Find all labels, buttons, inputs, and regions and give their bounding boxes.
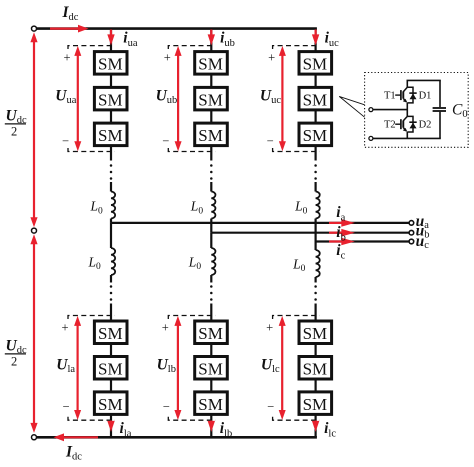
arrow: arm voltage U_lc (double headed) — [281, 320, 283, 417]
svg-text:2: 2 — [11, 124, 17, 138]
wire: lower arm c stem into SM stack — [315, 304, 317, 322]
node: AC terminal u_a — [409, 221, 414, 226]
wire: lower arm b to bottom bus — [210, 415, 212, 438]
wire: SM interconnect lower arm c 2-3 — [315, 379, 317, 392]
dashed boundary: lower arm c module group (bottom) — [273, 417, 320, 421]
submodule SM (upper arm a, #1) — [94, 52, 127, 75]
ellipsis: more SMs in lower arm b — [210, 285, 213, 288]
ellipsis: more SMs in upper arm a — [110, 164, 113, 167]
svg-text:+: + — [268, 51, 275, 65]
dashed boundary: lower arm a module group (bottom) — [68, 417, 115, 421]
node: DC midpoint — [32, 228, 37, 233]
arrow: arm voltage U_la (double headed) — [76, 320, 78, 417]
svg-text:SM: SM — [98, 359, 123, 378]
svg-text:SM: SM — [198, 324, 223, 343]
svg-text:SM: SM — [303, 55, 328, 74]
node: SM terminal upper — [369, 108, 373, 112]
wire: bridge midpoint segment — [406, 103, 408, 117]
svg-text:SM: SM — [198, 359, 223, 378]
wire: lower arm b stem into SM stack — [210, 304, 212, 322]
ellipsis: more SMs in upper arm b — [210, 164, 213, 167]
submodule SM (upper arm b, #2) — [195, 87, 228, 110]
arrow: output current i_b — [329, 232, 343, 234]
dashed boundary: upper arm c module group (top) — [273, 46, 320, 49]
dashed boundary: upper arm c module group (bottom) — [273, 148, 320, 152]
svg-text:−: − — [267, 400, 274, 414]
diode D1 (anti-parallel) — [407, 87, 416, 103]
submodule SM (lower arm a, #1) — [94, 321, 127, 344]
transistor T1 (IGBT) — [395, 87, 407, 103]
wire: SM interconnect lower arm a 2-3 — [110, 379, 112, 392]
wire: lower inductor b to lower arm — [210, 275, 212, 283]
wire: top DC bus (positive rail) — [34, 27, 317, 30]
wire: phase a upper arm stem from top bus — [110, 29, 112, 52]
svg-text:T2: T2 — [384, 120, 396, 131]
arrow: output current i_c — [329, 240, 343, 242]
submodule SM (lower arm c, #2) — [299, 357, 332, 380]
submodule SM (lower arm c, #1) — [299, 321, 332, 344]
wire: SM interconnect upper arm c 2-3 — [315, 110, 317, 122]
submodule SM (upper arm a, #3) — [94, 123, 127, 146]
node: SM terminal lower — [369, 136, 373, 140]
inductor L0 upper arm b — [211, 192, 215, 219]
wire: upper inductor b to AC node — [210, 219, 212, 233]
wire: SM interconnect lower arm c 1-2 — [315, 344, 317, 357]
svg-text:+: + — [64, 51, 71, 65]
dashed boundary: upper arm b module group (top) — [168, 46, 215, 49]
wire: upper inductor a to AC node — [110, 219, 112, 223]
inductor L0 lower arm c — [316, 250, 320, 277]
ellipsis: more SMs in upper arm c — [314, 164, 317, 167]
submodule SM (lower arm b, #1) — [195, 321, 228, 344]
inductor L0 lower arm a — [111, 248, 115, 275]
svg-text:SM: SM — [98, 324, 123, 343]
wire: phase c upper arm stem from top bus — [315, 29, 317, 52]
wire: lower arm a stem into SM stack — [110, 304, 112, 322]
inductor L0 upper arm c — [316, 192, 320, 219]
wire: SM interconnect lower arm b 1-2 — [210, 344, 212, 357]
arrow: Udc/2 measurement, upper half (double headed) — [33, 36, 35, 224]
arrow: arm current i_lb (bottom of leg) — [210, 421, 212, 424]
arrow: arm current i_ua (top of leg) — [110, 30, 112, 37]
wire: lower arm a to bottom bus — [110, 415, 112, 438]
svg-text:+: + — [62, 321, 69, 335]
wire: SM interconnect lower arm b 2-3 — [210, 379, 212, 392]
submodule SM (upper arm a, #2) — [94, 87, 127, 110]
wire: upper arm c below SM stack — [315, 146, 317, 161]
arrow: arm current i_ub (top of leg) — [210, 30, 212, 37]
svg-text:T1: T1 — [384, 91, 396, 102]
wire: AC output phase c — [316, 240, 410, 242]
dashed boundary: upper arm a module group (bottom) — [68, 148, 115, 152]
inductor L0 upper arm a — [111, 192, 115, 219]
arrow: output current i_a — [329, 222, 343, 224]
wire: AC output phase b — [211, 232, 409, 234]
svg-text:SM: SM — [198, 90, 223, 109]
submodule SM (upper arm c, #3) — [299, 123, 332, 146]
arrow: arm current i_la (bottom of leg) — [110, 421, 112, 424]
arrow: Idc current on top bus — [50, 28, 80, 30]
ellipsis: more SMs in lower arm c — [314, 285, 317, 288]
submodule SM (upper arm b, #3) — [195, 123, 228, 146]
submodule SM (lower arm b, #3) — [195, 392, 228, 415]
wire: phase b upper arm stem from top bus — [210, 29, 212, 52]
node: AC terminal u_b — [409, 230, 414, 235]
submodule SM (lower arm a, #2) — [94, 357, 127, 380]
dashed boundary: lower arm b module group (bottom) — [168, 417, 215, 421]
svg-text:SM: SM — [303, 126, 328, 145]
svg-text:2: 2 — [11, 354, 17, 368]
wire: SM interconnect lower arm a 1-2 — [110, 344, 112, 357]
submodule SM (lower arm a, #3) — [94, 392, 127, 415]
node: AC terminal u_c — [409, 239, 414, 244]
arrow: arm voltage U_ub (double headed) — [177, 50, 179, 148]
wire: bridge bottom segment — [406, 132, 408, 138]
callout wedge from SM box to inset — [339, 96, 364, 117]
svg-text:D2: D2 — [419, 120, 432, 131]
wire: upper inductor c to AC node — [315, 219, 317, 242]
wire: SM interconnect upper arm a 1-2 — [110, 75, 112, 88]
svg-text:SM: SM — [98, 126, 123, 145]
dashed boundary: upper arm a module group (top) — [68, 46, 115, 49]
svg-text:−: − — [63, 400, 70, 414]
svg-text:SM: SM — [98, 90, 123, 109]
submodule SM (upper arm c, #2) — [299, 87, 332, 110]
svg-text:SM: SM — [98, 395, 123, 414]
wire: AC node a to lower inductor — [110, 223, 112, 248]
submodule SM (lower arm b, #2) — [195, 357, 228, 380]
svg-text:SM: SM — [198, 126, 223, 145]
svg-text:SM: SM — [198, 395, 223, 414]
dashed boundary: lower arm b module group (top) — [168, 316, 215, 320]
wire: AC output phase a — [111, 222, 409, 224]
svg-text:−: − — [163, 400, 170, 414]
wire: SM upper terminal to bridge midpoint — [373, 109, 407, 111]
svg-text:SM: SM — [198, 55, 223, 74]
arrow: arm voltage U_uc (double headed) — [281, 50, 283, 148]
wire: SM lower terminal rail — [373, 137, 441, 139]
wire: SM interconnect upper arm b 1-2 — [210, 75, 212, 88]
wire: upper arm a to arm inductor — [110, 182, 112, 192]
transistor T2 (IGBT) — [395, 116, 407, 131]
wire: SM top rail — [407, 79, 441, 81]
wire: upper arm b to arm inductor — [210, 182, 212, 192]
arrow: arm voltage U_lb (double headed) — [177, 320, 179, 417]
arrow: arm current i_lc (bottom of leg) — [315, 421, 317, 424]
arrow: arm voltage U_ua (double headed) — [77, 50, 79, 148]
wire: SM interconnect upper arm b 2-3 — [210, 110, 212, 122]
dashed boundary: lower arm c module group (top) — [273, 316, 320, 320]
svg-text:−: − — [62, 134, 69, 148]
capacitor C0 — [433, 107, 446, 109]
dashed boundary: lower arm a module group (top) — [68, 316, 115, 320]
node: DC negative terminal — [32, 435, 37, 440]
ellipsis: more SMs in lower arm a — [110, 285, 113, 288]
svg-text:SM: SM — [303, 90, 328, 109]
submodule SM (upper arm b, #1) — [195, 52, 228, 75]
svg-text:D1: D1 — [419, 91, 432, 102]
svg-text:−: − — [267, 134, 274, 148]
dashed boundary: upper arm b module group (bottom) — [168, 148, 215, 152]
diode D2 (anti-parallel) — [407, 116, 416, 132]
wire: SM interconnect upper arm a 2-3 — [110, 110, 112, 122]
svg-text:SM: SM — [303, 324, 328, 343]
wire: AC node c to lower inductor — [315, 242, 317, 251]
wire: bottom DC bus (negative rail) — [34, 436, 317, 439]
svg-text:SM: SM — [98, 55, 123, 74]
svg-text:SM: SM — [303, 395, 328, 414]
wire: capacitor branch lower — [439, 112, 441, 139]
arrow: Udc/2 measurement, lower half (double headed) — [33, 238, 35, 429]
wire: lower inductor c to lower arm — [315, 277, 317, 283]
svg-text:−: − — [162, 134, 169, 148]
inset border (dotted): SM internal circuit — [365, 73, 469, 148]
wire: AC node b to lower inductor — [210, 233, 212, 248]
svg-text:+: + — [164, 51, 171, 65]
wire: upper arm a below SM stack — [110, 146, 112, 161]
arrow: arm current i_uc (top of leg) — [315, 30, 317, 37]
submodule SM (lower arm c, #3) — [299, 392, 332, 415]
inductor L0 lower arm b — [211, 248, 215, 275]
svg-text:+: + — [266, 321, 273, 335]
submodule SM (upper arm c, #1) — [299, 52, 332, 75]
wire: bridge top segment — [406, 80, 408, 87]
arrow: Idc current on bottom bus — [64, 436, 98, 438]
svg-text:+: + — [162, 321, 169, 335]
wire: lower arm c to bottom bus — [315, 415, 317, 438]
wire: SM interconnect upper arm c 1-2 — [315, 75, 317, 88]
wire: lower inductor a to lower arm — [110, 275, 112, 283]
node: DC positive terminal — [32, 26, 37, 31]
svg-text:SM: SM — [303, 359, 328, 378]
wire: capacitor branch upper — [439, 80, 441, 107]
wire: upper arm c to arm inductor — [315, 182, 317, 192]
wire: upper arm b below SM stack — [210, 146, 212, 161]
